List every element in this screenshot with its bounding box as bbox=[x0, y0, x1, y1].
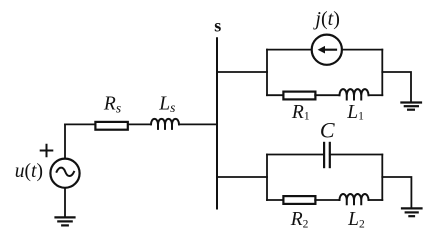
wire Ls to bus s bbox=[179, 123, 217, 125]
sine symbol inside source bbox=[57, 168, 74, 176]
polarity + sign bbox=[41, 145, 53, 157]
wire lower block to ground bbox=[382, 177, 411, 208]
node s bus bbox=[216, 38, 218, 208]
capacitor C bbox=[324, 143, 330, 167]
wire lower block right edge bbox=[381, 155, 383, 201]
resistor Rs bbox=[95, 122, 127, 130]
svg-text:s: s bbox=[214, 16, 221, 36]
svg-text:Rs: Rs bbox=[103, 94, 121, 116]
resistor R2 bbox=[283, 196, 315, 204]
svg-text:C: C bbox=[320, 118, 335, 143]
wire bus to upper block bbox=[217, 71, 267, 73]
inductor L2 bbox=[340, 194, 369, 205]
voltage source u(t) bbox=[50, 159, 79, 188]
arrow inside current source bbox=[323, 49, 337, 51]
wire lower top branch left bbox=[267, 154, 324, 156]
wire lower bottom branch left bbox=[267, 199, 282, 201]
wire between Rs and Ls bbox=[128, 123, 151, 125]
svg-text:L2: L2 bbox=[347, 209, 365, 230]
svg-text:R2: R2 bbox=[290, 209, 309, 230]
svg-text:j(t): j(t) bbox=[312, 8, 339, 30]
svg-text:L1: L1 bbox=[346, 102, 364, 123]
wire upper bottom branch left bbox=[267, 94, 282, 96]
wire upper block left edge bbox=[266, 50, 268, 96]
wire upper block to ground bbox=[382, 72, 411, 103]
ground (lower right) bbox=[402, 208, 422, 216]
resistor R1 bbox=[283, 92, 315, 100]
svg-text:R1: R1 bbox=[291, 102, 310, 123]
wire lower block left edge bbox=[266, 155, 268, 201]
wire source bottom to ground bbox=[64, 188, 66, 217]
ground (upper right) bbox=[401, 103, 421, 110]
wire L2 to right edge bbox=[369, 199, 383, 201]
wire upper top branch right bbox=[342, 49, 382, 51]
wire R2 to L2 bbox=[315, 199, 339, 201]
wire main horizontal left segment bbox=[65, 123, 95, 125]
wire lower top branch right bbox=[330, 154, 383, 156]
wire upper block right edge bbox=[381, 50, 383, 96]
wire R1 to L1 bbox=[315, 94, 339, 96]
svg-text:Ls: Ls bbox=[158, 93, 175, 115]
ground (source) bbox=[56, 217, 75, 225]
wire bus to lower block bbox=[217, 176, 267, 178]
wire L1 to right edge bbox=[369, 94, 383, 96]
inductor Ls bbox=[151, 119, 179, 130]
inductor L1 bbox=[340, 89, 369, 100]
wire source top to main wire bbox=[64, 124, 66, 158]
svg-text:u(t): u(t) bbox=[15, 161, 43, 182]
current source j(t) bbox=[312, 35, 342, 65]
wire upper top branch left bbox=[267, 49, 311, 51]
